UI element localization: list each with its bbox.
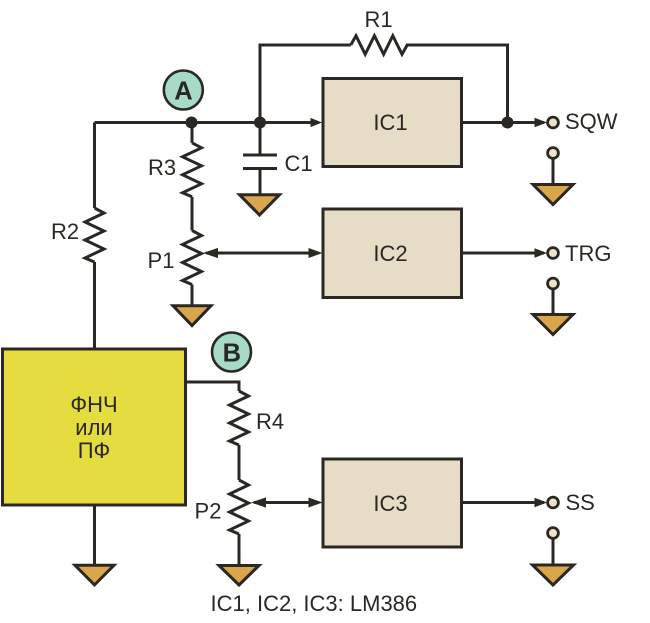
- wire IC1 output: [462, 121, 545, 124]
- svg-text:или: или: [75, 415, 112, 440]
- ground under C1: [240, 195, 280, 215]
- svg-text:IC3: IC3: [373, 491, 407, 516]
- junction dot IC1 output: [502, 117, 514, 129]
- ground under TRG: [533, 315, 573, 335]
- wire left vertical lower (R2 to filter box): [93, 262, 96, 350]
- svg-text:IC2: IC2: [373, 241, 407, 266]
- resistor R2: [85, 208, 104, 262]
- wire P2 wiper: [254, 501, 315, 504]
- op-amp IC2: [323, 209, 462, 298]
- terminal SS: [548, 497, 559, 508]
- arrow wiper P1 left: [203, 248, 218, 258]
- arrow into IC2: [309, 248, 323, 258]
- ground under P1: [173, 306, 211, 326]
- svg-text:R1: R1: [364, 7, 392, 32]
- svg-text:IC1, IC2, IC3: LM386: IC1, IC2, IC3: LM386: [211, 591, 418, 616]
- svg-text:SS: SS: [566, 490, 595, 515]
- svg-text:R3: R3: [148, 155, 176, 180]
- terminal TRG ground pin: [548, 278, 559, 289]
- svg-text:B: B: [223, 340, 241, 368]
- wire P1 bottom lead: [191, 285, 194, 306]
- wire IC3 output: [462, 501, 545, 504]
- svg-text:ФНЧ: ФНЧ: [70, 392, 117, 417]
- ground under SS: [533, 565, 574, 585]
- op-amp IC1: [323, 79, 462, 167]
- wire P1 wiper: [206, 252, 315, 255]
- node A marker: [164, 71, 203, 110]
- svg-text:R4: R4: [256, 409, 284, 434]
- op-amp IC3: [323, 459, 462, 547]
- wire C1 bottom lead: [259, 169, 262, 195]
- svg-text:TRG: TRG: [565, 241, 611, 266]
- wire SQW ground: [552, 159, 555, 185]
- wire R4 to P2: [238, 445, 241, 480]
- resistor R4: [230, 391, 249, 445]
- terminal TRG: [548, 248, 559, 259]
- svg-text:P2: P2: [195, 499, 222, 524]
- wire P2 bottom lead: [238, 534, 241, 566]
- arrow wiper P2 left: [251, 497, 266, 507]
- ground under filter: [75, 565, 114, 585]
- wire left vertical upper (node A to R2): [93, 123, 96, 209]
- svg-text:SQW: SQW: [565, 109, 618, 134]
- arrow into IC3: [309, 498, 323, 508]
- wire R3 to P1: [191, 197, 194, 231]
- potentiometer P1: [183, 231, 202, 285]
- arrow into IC1: [311, 118, 323, 127]
- potentiometer P2: [230, 480, 249, 534]
- svg-text:P1: P1: [148, 248, 175, 273]
- wire SS ground: [552, 539, 555, 566]
- node B marker: [212, 333, 251, 372]
- resistor R3: [183, 143, 202, 197]
- arrow to SQW: [535, 118, 548, 127]
- terminal SQW: [548, 117, 559, 128]
- junction dot C1: [254, 117, 266, 129]
- arrow to TRG: [535, 248, 548, 257]
- capacitor C1: [243, 153, 277, 156]
- wire feedback left vertical: [260, 45, 351, 123]
- wire C1 top lead: [259, 123, 262, 156]
- junction dot A: [186, 117, 198, 129]
- svg-text:C1: C1: [285, 151, 313, 176]
- svg-text:A: A: [174, 77, 192, 105]
- terminal SQW ground pin: [548, 148, 559, 159]
- wire feedback right vertical: [406, 45, 508, 123]
- svg-text:ПФ: ПФ: [78, 438, 111, 463]
- wire filter box bottom: [93, 505, 96, 565]
- ground under SQW: [533, 185, 573, 205]
- terminal SS ground pin: [548, 528, 559, 539]
- wire main node-A horizontal: [95, 121, 312, 124]
- wire TRG ground: [552, 289, 555, 315]
- arrow to SS: [535, 498, 548, 507]
- wire R3 top lead: [191, 123, 194, 143]
- filter block FNCH/PF: [3, 349, 186, 505]
- wire node B: [185, 382, 239, 391]
- ground under P2: [219, 566, 259, 586]
- svg-text:IC1: IC1: [373, 110, 407, 135]
- wire IC2 output: [462, 252, 545, 255]
- svg-text:R2: R2: [51, 219, 79, 244]
- resistor R1: [351, 36, 407, 55]
